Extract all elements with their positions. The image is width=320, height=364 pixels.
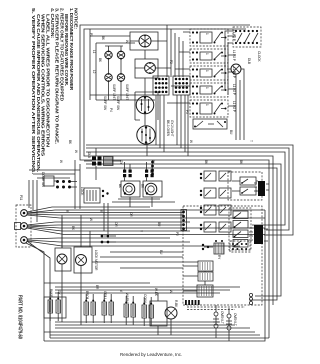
svg-text:P4: P4 — [109, 108, 113, 112]
svg-text:W: W — [125, 40, 129, 43]
feeder turn wires — [29, 170, 80, 178]
svg-text:DLB: DLB — [247, 58, 251, 64]
svg-text:OVEN LT: OVEN LT — [220, 311, 224, 324]
latch edge connector — [254, 181, 269, 196]
svg-text:OR: OR — [129, 212, 133, 217]
surface unit receptacles — [105, 50, 125, 82]
relay wires — [84, 148, 121, 180]
svg-text:DOOR SW: DOOR SW — [41, 172, 45, 187]
bottom component wires — [62, 215, 229, 341]
buzzer wires — [227, 69, 244, 140]
svg-text:W: W — [74, 150, 78, 153]
terminal L1 — [21, 210, 28, 217]
right rear element — [135, 59, 158, 78]
control board inner dashed box — [229, 208, 251, 250]
main harness bus wires — [86, 145, 293, 300]
left connector dots column — [151, 161, 154, 176]
lamp socket pair 1 — [213, 311, 224, 328]
svg-text:L1: L1 — [92, 50, 96, 54]
aux dot pair connector — [101, 235, 116, 244]
grid drop wires — [156, 95, 188, 156]
transformer coil — [214, 240, 224, 254]
svg-text:BK-1 OVEN: BK-1 OVEN — [166, 120, 170, 137]
svg-text:T: T — [249, 140, 253, 142]
svg-text:5. VERIFY PROPER OPERATION AFT: 5. VERIFY PROPER OPERATION AFTER SERVICI… — [31, 8, 36, 174]
svg-text:BROIL: BROIL — [85, 291, 89, 300]
svg-text:BAKE: BAKE — [49, 289, 53, 297]
left rail wire B — [27, 241, 50, 338]
svg-text:P2: P2 — [169, 60, 173, 64]
lamp wires — [125, 162, 153, 207]
terminal N — [15, 223, 28, 230]
lamp socket pair 2 — [226, 313, 237, 330]
double line break relay — [92, 157, 113, 166]
console drop wires — [62, 160, 108, 248]
svg-text:LOCK MOTOR: LOCK MOTOR — [94, 250, 98, 271]
right front element — [130, 32, 158, 50]
svg-text:CONV: CONV — [143, 294, 147, 304]
lamp area wires — [112, 199, 175, 202]
svg-text:GRILL: GRILL — [103, 291, 107, 300]
latch relay dashed box — [228, 172, 262, 200]
feeder bus wires — [167, 25, 183, 77]
bottom bus wires — [44, 322, 260, 335]
terminal fan wires — [27, 207, 265, 246]
svg-text:OR: OR — [114, 222, 118, 227]
left rail wire A — [26, 243, 44, 341]
svg-text:P1: P1 — [89, 33, 93, 37]
svg-text:DLB: DLB — [87, 152, 91, 158]
console outline inner wire — [84, 29, 273, 305]
svg-text:L2: L2 — [92, 70, 96, 74]
relay rows feed connector — [181, 210, 187, 231]
cooling fan motor 2 — [143, 170, 162, 198]
svg-text:W: W — [169, 290, 173, 293]
receptacle wiring — [96, 43, 155, 100]
latch wires — [232, 181, 258, 191]
svg-text:Rendered by LeadVenture, Inc.: Rendered by LeadVenture, Inc. — [120, 352, 182, 357]
svg-text:R-BK: R-BK — [174, 300, 178, 308]
switch stack left taps — [167, 32, 236, 106]
svg-text:WARM: WARM — [125, 293, 129, 303]
svg-text:L1 H2 P: L1 H2 P — [232, 50, 236, 61]
power terminal block dashed box — [16, 205, 31, 247]
door switch connector dots — [44, 176, 77, 189]
cooling fan motor 1 — [121, 170, 140, 198]
svg-text:PART NO. 8104P479-60: PART NO. 8104P479-60 — [17, 295, 23, 339]
svg-text:SURF UNIT: SURF UNIT — [112, 84, 116, 100]
motor flank wires — [135, 92, 158, 120]
element column wiring — [130, 41, 171, 156]
oven light switch box — [55, 248, 71, 271]
svg-text:P2: P2 — [175, 232, 179, 236]
svg-text:SURF UNIT: SURF UNIT — [125, 84, 129, 100]
svg-text:W-BK: W-BK — [154, 288, 158, 297]
svg-text:LOCK: LOCK — [80, 187, 84, 196]
lock motor box — [74, 247, 92, 273]
svg-text:SURF SW: SURF SW — [103, 96, 107, 110]
svg-text:L1 H2 P: L1 H2 P — [232, 101, 236, 112]
door lock motor box — [84, 188, 109, 203]
bottom connector cluster — [185, 300, 245, 310]
control board outer dashed box — [183, 206, 262, 305]
switch column lower boxes — [193, 119, 227, 129]
infinite switch stack — [190, 29, 236, 117]
relay cluster dots — [202, 244, 213, 250]
svg-text:OVEN LT: OVEN LT — [233, 313, 237, 326]
relay row group — [200, 171, 231, 232]
buzzer circle — [231, 64, 241, 74]
pin block P1a — [198, 261, 213, 271]
svg-text:SURF SW: SURF SW — [116, 96, 120, 110]
console outline outer wire — [80, 25, 269, 338]
svg-text:CLOCK: CLOCK — [257, 51, 261, 62]
svg-text:P3: P3 — [185, 110, 189, 114]
terminal L2 — [21, 237, 28, 244]
pin block P1c — [197, 285, 213, 297]
svg-text:W: W — [89, 218, 93, 221]
convection motor — [137, 126, 155, 144]
svg-text:L1 H2 P: L1 H2 P — [232, 84, 236, 95]
pin block wires — [183, 266, 205, 291]
misc wire labels — [57, 60, 253, 308]
latch switch boxes — [240, 177, 256, 195]
svg-text:P11: P11 — [19, 195, 23, 200]
fan motor box — [150, 301, 177, 326]
mid-left bus wires — [44, 283, 240, 293]
svg-text:W: W — [59, 160, 63, 163]
clock connector dashed box — [233, 27, 261, 47]
pin block P1b — [198, 272, 213, 281]
terminal dot-grid connector left — [153, 76, 169, 95]
bottom heater elements row — [44, 289, 154, 326]
pin feed wires — [92, 252, 198, 268]
board edge connector block — [249, 225, 268, 244]
board indicator dots — [249, 293, 252, 304]
svg-text:W: W — [189, 140, 193, 143]
notice text block — [31, 8, 79, 174]
svg-text:GY-2 LIGHT: GY-2 LIGHT — [170, 120, 174, 137]
console upper-left extra wires — [90, 29, 155, 100]
right side long rail wires — [50, 337, 269, 339]
terminal dot-grid connector right — [173, 76, 190, 95]
oven vent fan motor — [136, 96, 154, 114]
board relay column — [233, 211, 248, 247]
clock wires — [225, 31, 233, 95]
feeder wires above terminals — [29, 180, 37, 222]
aux connector dashed box — [230, 241, 250, 252]
